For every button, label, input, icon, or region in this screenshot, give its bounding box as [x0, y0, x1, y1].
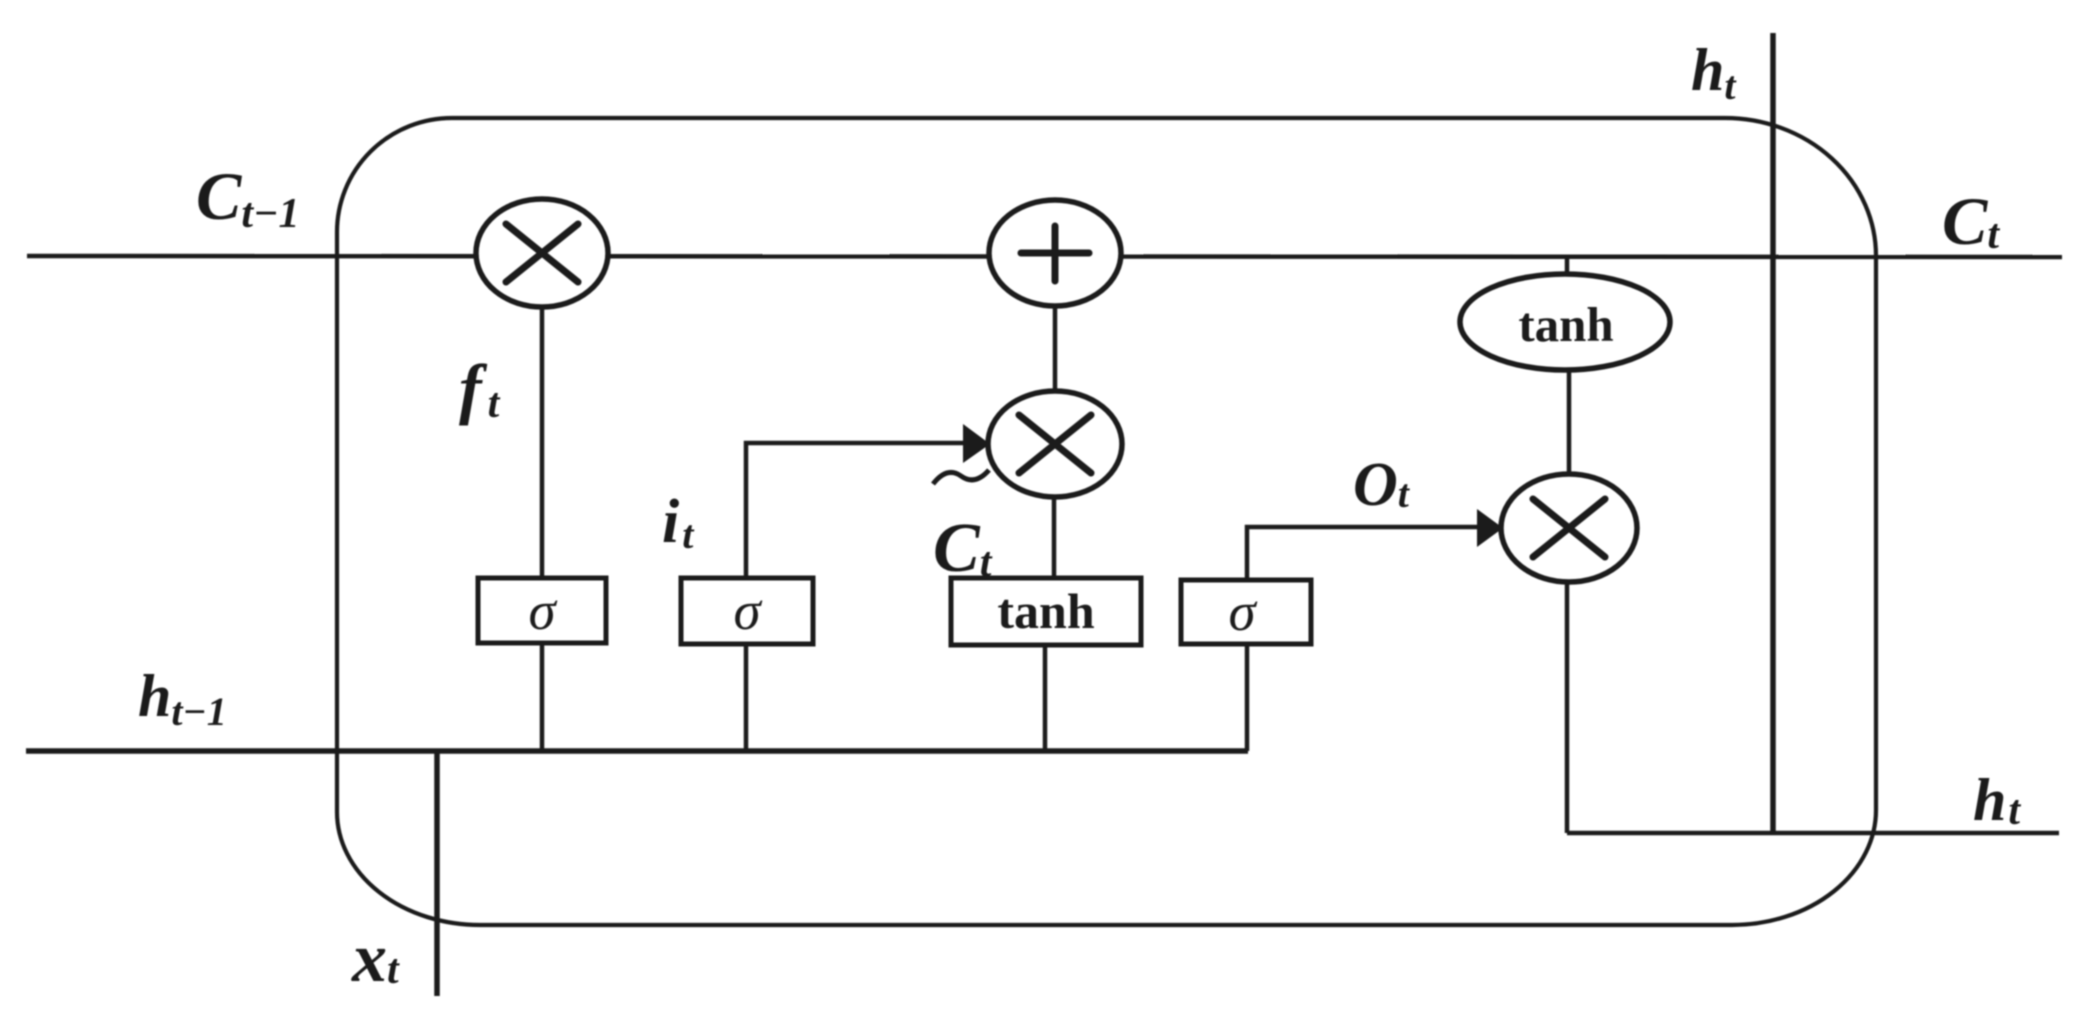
- svg-text:xt: xt: [351, 920, 400, 997]
- wire sigma4 down to h line: [1245, 644, 1250, 751]
- multiply node 2 (input): [988, 391, 1122, 497]
- wire tanh ellipse down to multiply3: [1567, 345, 1572, 500]
- svg-text:σ: σ: [1228, 581, 1257, 642]
- tanh box (candidate): [951, 578, 1141, 645]
- svg-text:σ: σ: [528, 580, 557, 641]
- svg-text:tanh: tanh: [1518, 297, 1613, 352]
- svg-text:ht: ht: [1973, 767, 2021, 834]
- wire plus down to multiply2: [1053, 253, 1058, 444]
- wire x_t vertical input: [434, 751, 440, 996]
- svg-text:ht: ht: [1691, 37, 1737, 108]
- sigma box 2 (input gate): [681, 578, 813, 644]
- tanh ellipse: [1460, 274, 1670, 370]
- svg-text:it: it: [662, 488, 695, 557]
- wire output gate O_t: sigma4 up then right into multiply3: [1247, 527, 1485, 580]
- multiply node 1 (forget): [476, 199, 608, 307]
- arrowhead into multiply3: [1477, 509, 1503, 547]
- wire tanh box down to h line: [1043, 645, 1048, 751]
- wire multiply3 down to h_t line: [1565, 528, 1570, 833]
- svg-text:Ct−1: Ct−1: [196, 158, 299, 237]
- wire h_t vertical output line: [1770, 33, 1776, 833]
- LSTM cell rounded box: [337, 118, 1876, 925]
- svg-text:tanh: tanh: [997, 583, 1094, 639]
- svg-text:ft: ft: [459, 350, 501, 427]
- svg-text:σ: σ: [733, 580, 762, 641]
- wire h_t horizontal output: [1567, 831, 2059, 836]
- plus node: [989, 200, 1121, 306]
- wire sigma2 down to h line: [744, 643, 749, 751]
- arrowhead into multiply2: [963, 424, 990, 463]
- wire input gate i_t: sigma2 up then right into multiply2: [746, 443, 972, 578]
- sigma box 4 (output gate): [1181, 580, 1311, 644]
- wire C line down into tanh ellipse: [1565, 256, 1570, 300]
- multiply node 3 (output): [1501, 474, 1637, 582]
- wire sigma1 down to h line: [540, 643, 545, 751]
- wire forget gate stub: sigma1 up to multiply1: [540, 253, 545, 578]
- tilde of C~t: [933, 470, 989, 484]
- sigma box 1 (forget gate): [478, 578, 606, 643]
- svg-text:Ot: Ot: [1353, 451, 1411, 519]
- svg-text:Ct: Ct: [933, 510, 993, 587]
- wire C line horizontal Ct-1 to Ct: [27, 256, 2062, 257]
- svg-text:Ct: Ct: [1942, 183, 2000, 259]
- svg-text:ht−1: ht−1: [138, 663, 227, 734]
- wire h_t-1 horizontal: [26, 748, 1248, 754]
- wire multiply2 down to tanh box: [1052, 444, 1057, 578]
